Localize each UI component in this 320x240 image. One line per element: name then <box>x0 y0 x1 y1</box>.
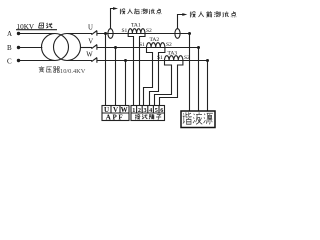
wire phase B <box>19 47 43 49</box>
label 母线 <box>39 23 53 28</box>
wire W after breaker <box>97 60 207 62</box>
junction dot W drop <box>124 59 127 62</box>
APF box <box>102 106 129 121</box>
svg-text:B: B <box>7 44 12 52</box>
terminal dot C <box>17 59 20 62</box>
wire drop V to APF <box>115 48 117 106</box>
transformer T1 secondary circle <box>54 34 81 61</box>
CT TA3 coil <box>165 56 183 61</box>
svg-text:TA3: TA3 <box>168 51 178 57</box>
transformer T1 primary circle <box>42 34 69 61</box>
CT TA3 secondary lead S1 to terminal 5 <box>155 61 172 106</box>
CT TA1 secondary lead S2 to terminal 2 <box>140 34 146 106</box>
busbar underline under 10KV母线 <box>16 29 57 31</box>
svg-text:C: C <box>7 57 12 65</box>
junction dot U drop <box>104 32 107 35</box>
arrow leader to 投入后测试点 <box>111 9 114 29</box>
svg-text:3: 3 <box>144 107 147 114</box>
svg-text:V: V <box>88 39 93 46</box>
wire drop W to harmonic source <box>207 61 209 111</box>
wire drop U to harmonic source <box>189 34 191 111</box>
junction dot V right corner <box>197 46 200 49</box>
breaker QF3 on W <box>91 58 97 63</box>
junction dot U right corner <box>188 32 191 35</box>
svg-text:10KV: 10KV <box>17 23 35 31</box>
svg-text:U: U <box>88 25 93 32</box>
arrowhead left <box>113 7 118 10</box>
wire U after breaker <box>97 33 189 35</box>
svg-text:APF: APF <box>106 114 124 122</box>
label 投入前测试点 <box>190 11 236 17</box>
breaker QF1 on U <box>91 31 97 36</box>
svg-text:TA2: TA2 <box>150 37 160 43</box>
label 投入后测试点 <box>120 9 161 15</box>
svg-text:1: 1 <box>132 107 135 114</box>
wire W from transformer <box>67 60 92 62</box>
terminal numbers 1-6 <box>132 107 163 114</box>
wire phase C <box>19 60 56 62</box>
terminal dot B <box>17 46 20 49</box>
arrowhead right <box>182 13 187 16</box>
wire phase A <box>19 33 56 35</box>
label 变压器 <box>39 66 60 72</box>
terminal block box <box>131 106 165 121</box>
svg-text:S1: S1 <box>157 55 163 61</box>
arrow leader to 投入前测试点 <box>178 15 183 29</box>
wire U from transformer <box>67 33 92 35</box>
svg-text:S2: S2 <box>184 55 190 61</box>
svg-text:4: 4 <box>149 107 152 114</box>
CT TA1 coil <box>128 29 145 34</box>
svg-text:S2: S2 <box>146 28 152 34</box>
svg-text:S2: S2 <box>166 42 172 48</box>
svg-text:TA1: TA1 <box>131 23 141 29</box>
CT TA1 secondary lead S1 to terminal 1 <box>128 34 133 106</box>
wire drop W to APF <box>125 61 127 106</box>
svg-text:2: 2 <box>138 107 141 114</box>
svg-text:W: W <box>86 52 93 59</box>
svg-text:S1: S1 <box>122 28 128 34</box>
CT TA3 secondary lead S2 to terminal 6 <box>160 61 183 106</box>
svg-text:A: A <box>7 30 12 38</box>
label 谐波源 <box>183 112 213 124</box>
label 接线端子 <box>135 114 161 119</box>
harmonic source box <box>181 111 215 128</box>
svg-text:5: 5 <box>155 107 158 114</box>
junction dot W right corner <box>206 59 209 62</box>
svg-text:10/0.4KV: 10/0.4KV <box>60 68 86 75</box>
wire V after breaker <box>97 47 198 49</box>
svg-text:6: 6 <box>160 107 163 114</box>
svg-text:S1: S1 <box>139 42 145 48</box>
CT TA2 secondary lead S1 to terminal 3 <box>144 48 153 106</box>
wire drop U to APF <box>105 34 107 106</box>
CT TA2 secondary lead S2 to terminal 4 <box>150 48 165 106</box>
CT TA2 coil <box>147 43 165 48</box>
wire drop V to harmonic source <box>198 48 200 111</box>
wire V from transformer <box>81 47 93 49</box>
breaker QF2 on V <box>91 45 97 50</box>
terminal dot A <box>17 32 20 35</box>
test point probe ellipse right on U <box>175 29 180 39</box>
test point probe ellipse left on U <box>108 29 113 39</box>
junction dot V drop <box>114 46 117 49</box>
